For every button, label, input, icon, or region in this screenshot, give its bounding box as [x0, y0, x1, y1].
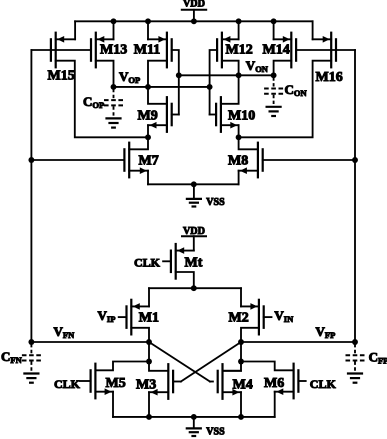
svg-text:M14: M14 [263, 43, 290, 58]
svg-text:M9: M9 [138, 109, 158, 124]
svg-text:CFN: CFN [1, 349, 23, 365]
svg-text:M10: M10 [228, 109, 255, 124]
svg-text:M5: M5 [106, 376, 126, 391]
svg-text:CLK: CLK [134, 256, 161, 270]
svg-text:VFN: VFN [54, 324, 76, 340]
svg-text:M6: M6 [264, 376, 284, 391]
svg-text:M11: M11 [134, 43, 160, 58]
svg-text:M2: M2 [229, 311, 249, 326]
svg-text:Mt: Mt [185, 256, 203, 271]
svg-text:M15: M15 [48, 69, 75, 84]
svg-text:M13: M13 [100, 43, 127, 58]
svg-text:VSS: VSS [206, 427, 225, 438]
svg-text:VIP: VIP [98, 308, 116, 324]
svg-text:CON: CON [285, 82, 308, 98]
svg-text:M16: M16 [316, 70, 343, 85]
svg-text:VFP: VFP [316, 324, 336, 340]
svg-text:M4: M4 [233, 378, 253, 393]
svg-text:CLK: CLK [310, 377, 337, 391]
svg-text:COP: COP [83, 94, 104, 110]
svg-text:VDD: VDD [183, 0, 205, 10]
svg-text:VOP: VOP [119, 69, 140, 85]
svg-text:VDD: VDD [183, 226, 205, 237]
svg-text:M8: M8 [228, 154, 248, 169]
svg-text:M12: M12 [226, 43, 253, 58]
svg-text:CFP: CFP [369, 350, 387, 366]
svg-text:M7: M7 [139, 154, 159, 169]
svg-text:CLK: CLK [54, 377, 81, 391]
svg-text:M3: M3 [136, 378, 156, 393]
svg-text:VSS: VSS [206, 197, 225, 208]
svg-text:M1: M1 [139, 311, 159, 326]
svg-text:VIN: VIN [274, 308, 294, 324]
svg-text:VON: VON [246, 58, 269, 74]
